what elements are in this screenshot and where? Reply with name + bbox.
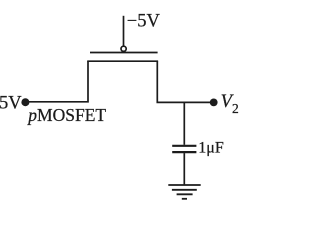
ground (168, 185, 200, 199)
svg-text:pMOSFET: pMOSFET (26, 105, 106, 125)
gate line of transistor (90, 52, 158, 54)
wire capacitor top (183, 102, 185, 144)
channel bar of transistor (87, 60, 158, 62)
wire drain lead right (157, 61, 213, 102)
svg-text:5V: 5V (0, 94, 22, 114)
pMOS gate bubble (121, 46, 126, 51)
capacitor C1 top plate (172, 145, 196, 147)
node V2 dot (210, 99, 218, 107)
wire source lead left (25, 61, 88, 102)
node 5V dot (21, 98, 29, 106)
svg-text:−5V: −5V (127, 11, 161, 31)
capacitor C1 bottom plate (172, 151, 196, 153)
svg-text:1μF: 1μF (198, 139, 224, 156)
wire capacitor bottom (183, 153, 185, 185)
wire gate supply (123, 16, 125, 46)
svg-text:2: 2 (232, 101, 239, 116)
